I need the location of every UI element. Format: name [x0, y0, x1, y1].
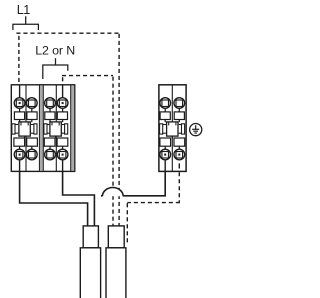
clamp arms block1 — [15, 125, 34, 134]
internal conductor ticks — [20, 103, 63, 150]
cage ticks — [169, 122, 176, 138]
divider — [171, 85, 173, 172]
cage ticks — [21, 122, 59, 138]
wire L1 dashed vertical into left block — [18, 36, 20, 85]
wire L2-or-N dashed horizontal — [62, 75, 113, 77]
internal conductor ticks — [165, 103, 179, 150]
stub from top edge into circle 4 (L2 or N) — [62, 85, 64, 103]
cable 1 body — [80, 248, 100, 298]
block body — [11, 85, 74, 172]
terminal block right (2-pole) — [159, 85, 186, 172]
wire from left block circle4 down to cable 1 — [63, 157, 95, 227]
block body — [159, 85, 186, 172]
cable 1 sleeve — [83, 226, 98, 248]
wire N dashed from right block to cable 2 — [127, 172, 180, 244]
side tabs — [160, 124, 163, 134]
wire L1 dashed horizontal — [16, 32, 119, 34]
screw terminals top row — [160, 98, 185, 109]
clamp rects row 1 — [160, 112, 184, 120]
wire L2-or-N dashed vertical down to cable 2 — [112, 77, 114, 227]
wire L1 dashed vertical down to cable 2 — [118, 34, 120, 226]
side tabs block2 — [44, 124, 47, 134]
clamp arms block2 — [47, 125, 64, 134]
stub from bottom circle5 through bottom edge — [164, 155, 166, 172]
wire hop (crossover bridge) over dashed wires — [102, 188, 123, 197]
terminal block group left (two 2-pole blocks) — [11, 85, 74, 172]
divider block1 — [25, 85, 27, 172]
cage square block2 — [50, 122, 61, 136]
connection dot bottom circle4 — [62, 154, 64, 156]
clamp rects row 1 — [14, 112, 67, 120]
partition gray bar between blocks — [39, 85, 43, 172]
bracket under L2 or N — [43, 58, 68, 79]
stub dashed below circle6 — [178, 163, 180, 168]
svg-text:L1: L1 — [17, 3, 30, 17]
connection dot circle4 — [62, 102, 64, 104]
cable 2 body — [106, 248, 126, 298]
clamp rects row 2 — [14, 138, 68, 146]
screw terminals top row — [14, 98, 68, 109]
cage square block1 — [19, 122, 30, 136]
clamp rects row 2 — [160, 138, 185, 146]
wire L2-or-N dashed vertical into left block — [62, 77, 64, 85]
side tabs block1 — [12, 124, 15, 134]
protective earth symbol — [190, 124, 202, 136]
clamp arms — [163, 125, 182, 134]
cage square — [167, 122, 178, 136]
stub from top edge into circle 1 (L1) — [19, 85, 21, 103]
wire L1 net (dashed): down to block1 circle1 and across to cable 2 — [16, 33, 180, 244]
stubs from bottom circles through bottom edge — [19, 155, 21, 172]
connection dot bottom circle6 — [178, 154, 180, 156]
cable 2 sleeve — [108, 226, 124, 248]
screw terminals bottom row — [14, 149, 68, 160]
connection dot bottom circle1 — [19, 154, 21, 156]
divider block2 — [55, 85, 57, 172]
connection dot bottom circle5 — [164, 154, 166, 156]
wire from hop to right block — [123, 157, 165, 196]
bracket under L1 — [13, 16, 39, 30]
svg-text:L2 or N: L2 or N — [35, 43, 75, 57]
screw terminals bottom row — [160, 149, 185, 160]
partition gray bar right end — [71, 85, 75, 172]
connection dot circle1 — [19, 102, 21, 104]
wire from left block circle1 down to cable 1 — [20, 157, 88, 227]
